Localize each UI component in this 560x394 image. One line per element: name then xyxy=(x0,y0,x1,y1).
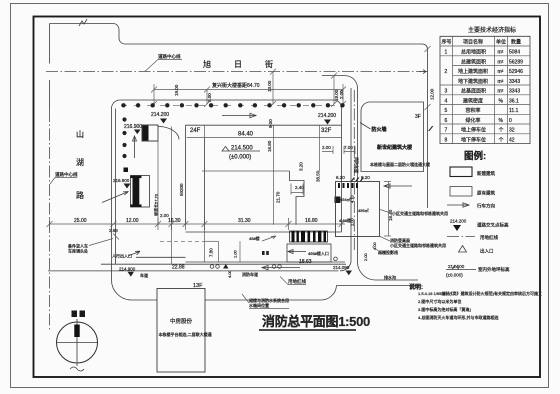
svg-text:m²: m² xyxy=(498,89,504,95)
podium building 3F outline xyxy=(361,102,424,172)
internal verticals below tower xyxy=(158,127,172,265)
east road centre line (dash-dot) xyxy=(353,90,355,252)
south street edge turning into east access road xyxy=(322,76,418,280)
legend entrance triangle xyxy=(459,246,467,253)
svg-text:0: 0 xyxy=(509,118,512,124)
svg-text:容积率: 容积率 xyxy=(466,107,481,114)
svg-text:道路中心线: 道路中心线 xyxy=(158,53,181,60)
svg-text:45#楼: 45#楼 xyxy=(249,235,260,241)
svg-text:52946: 52946 xyxy=(509,69,523,75)
svg-text:(±0.000): (±0.000) xyxy=(229,155,251,161)
svg-text:13.00: 13.00 xyxy=(267,80,272,92)
column dot column (west colonnade) xyxy=(122,117,126,121)
road break mark xyxy=(79,19,87,26)
door swing arc xyxy=(158,127,179,140)
svg-text:复兴街大楼垂距84.70: 复兴街大楼垂距84.70 xyxy=(212,82,260,89)
arrow into entrance xyxy=(288,250,306,254)
svg-text:7: 7 xyxy=(445,128,448,134)
svg-text:2.00: 2.00 xyxy=(363,252,368,261)
svg-text:38.50: 38.50 xyxy=(316,170,321,182)
svg-text:消防总平面图1:500: 消防总平面图1:500 xyxy=(262,314,370,329)
compass north label xyxy=(72,311,78,318)
svg-text:32F: 32F xyxy=(321,128,332,134)
svg-text:用地红线: 用地红线 xyxy=(288,278,306,285)
svg-text:7.00: 7.00 xyxy=(344,145,353,150)
step outline east wing xyxy=(290,171,305,225)
svg-text:用地红线: 用地红线 xyxy=(480,234,498,241)
lobby dashed line xyxy=(160,240,205,242)
svg-text:3343: 3343 xyxy=(509,89,520,95)
svg-text:214.200: 214.200 xyxy=(450,219,467,224)
svg-text:5084: 5084 xyxy=(509,50,520,56)
svg-text:4.00: 4.00 xyxy=(372,241,377,250)
svg-text:旭: 旭 xyxy=(203,59,211,69)
svg-text:3343: 3343 xyxy=(509,79,520,85)
road edge: north side of Xuri street with jog xyxy=(50,24,428,209)
svg-text:小区交通主道路和邻栋建筑共用: 小区交通主道路和邻栋建筑共用 xyxy=(390,242,446,248)
hydrant circles on lane xyxy=(210,265,214,269)
svg-text:16.80: 16.80 xyxy=(305,218,318,224)
svg-text:雨棚投影线: 雨棚投影线 xyxy=(378,249,398,255)
hatched crossing on lane xyxy=(351,178,365,182)
svg-text:25.00: 25.00 xyxy=(74,218,87,224)
hatch bars top of 4-6# xyxy=(338,183,358,188)
svg-text:个: 个 xyxy=(499,128,504,134)
label 道路中心线 (left) xyxy=(50,171,78,184)
svg-text:数量: 数量 xyxy=(511,39,521,46)
svg-text:说明:: 说明: xyxy=(409,283,423,291)
ramp outline box xyxy=(131,176,150,208)
svg-text:2.图中尺寸均以米为单位: 2.图中尺寸均以米为单位 xyxy=(418,298,461,304)
level symbol 214.500 (±0.000) xyxy=(222,146,260,161)
tower south wall line xyxy=(186,261,346,263)
svg-text:新建建筑: 新建建筑 xyxy=(477,170,495,177)
svg-text:新世纪建筑大楼: 新世纪建筑大楼 xyxy=(377,144,412,151)
svg-text:2.68: 2.68 xyxy=(109,228,118,233)
svg-text:2.00: 2.00 xyxy=(350,217,355,226)
svg-text:11.1: 11.1 xyxy=(509,108,519,114)
site top boundary with rounded corners xyxy=(112,100,342,232)
compass base squiggle xyxy=(70,367,84,371)
svg-text:%: % xyxy=(499,98,504,104)
svg-text:31.30: 31.30 xyxy=(238,218,251,224)
compass circle xyxy=(57,322,98,363)
compass needle black xyxy=(74,325,79,338)
svg-text:总基底面积: 总基底面积 xyxy=(461,88,486,95)
svg-text:4.10: 4.10 xyxy=(350,194,355,203)
small marks on lane xyxy=(262,251,265,255)
small black landing xyxy=(124,168,129,173)
fire lane north line xyxy=(101,263,346,265)
svg-text:排水沟: 排水沟 xyxy=(384,274,396,280)
svg-text:214.500: 214.500 xyxy=(231,146,253,152)
svg-text:消防车道: 消防车道 xyxy=(242,271,258,277)
fire lane south line curving up east xyxy=(48,270,339,272)
svg-text:m²: m² xyxy=(498,50,504,56)
svg-text:84.40: 84.40 xyxy=(238,132,254,138)
svg-text:山: 山 xyxy=(76,129,84,139)
svg-text:4.总图消防灭火车道均环形,并与市政道路相连: 4.总图消防灭火车道均环形,并与市政道路相连 xyxy=(418,314,498,320)
svg-text:绿化率: 绿化率 xyxy=(466,117,481,124)
parking barcode hatch block xyxy=(290,231,328,242)
svg-text:消防车道: 消防车道 xyxy=(354,157,360,173)
svg-text:室内外地坪标高: 室内外地坪标高 xyxy=(478,266,510,273)
svg-text:56289: 56289 xyxy=(509,59,523,65)
traffic direction arrow on street xyxy=(222,113,256,117)
svg-text:50200: 50200 xyxy=(179,183,184,196)
svg-text:456#楼入口: 456#楼入口 xyxy=(308,250,329,256)
svg-text:出入口: 出入口 xyxy=(480,248,494,255)
svg-text:湖: 湖 xyxy=(76,158,84,167)
column dot row (trees/columns along street) xyxy=(121,103,125,107)
west annexe edge xyxy=(115,109,117,265)
Zhongfang block outline xyxy=(157,289,205,373)
svg-text:12.00: 12.00 xyxy=(430,88,435,100)
centre-line arrow tick xyxy=(419,70,426,74)
lane direction arrow (west) xyxy=(262,265,300,269)
svg-text:214.900: 214.900 xyxy=(119,267,136,272)
svg-text:4: 4 xyxy=(445,98,448,104)
svg-text:1: 1 xyxy=(445,50,448,56)
legend red line dash-dot xyxy=(447,236,475,238)
entrance canopy block (north-west) xyxy=(142,125,158,141)
small annex black mark xyxy=(335,197,341,204)
svg-text:2.00: 2.00 xyxy=(339,90,344,99)
svg-text:214.090: 214.090 xyxy=(333,265,350,270)
svg-text:防火墙: 防火墙 xyxy=(372,126,387,133)
svg-text:12.00: 12.00 xyxy=(126,218,139,224)
fire lane upper edge xyxy=(136,256,186,258)
legend existing building box xyxy=(450,187,472,197)
svg-text:42: 42 xyxy=(509,137,515,143)
svg-text:32: 32 xyxy=(509,128,515,134)
svg-text:车库调头处: 车库调头处 xyxy=(68,248,88,254)
entrance hall outline (south-east) xyxy=(287,244,331,262)
svg-text:3F: 3F xyxy=(415,114,421,120)
svg-text:地上建筑面积: 地上建筑面积 xyxy=(458,68,488,75)
compass needle line xyxy=(76,319,78,366)
svg-text:3.20: 3.20 xyxy=(299,162,304,171)
svg-text:m²: m² xyxy=(498,69,504,75)
leader arrow to ramp xyxy=(102,192,129,203)
svg-text:1.00: 1.00 xyxy=(233,249,238,258)
svg-text:行车方向: 行车方向 xyxy=(477,203,495,210)
svg-text:19.00: 19.00 xyxy=(174,84,179,96)
road centre line: Shanhu road (vertical) xyxy=(49,24,51,111)
svg-text:单位: 单位 xyxy=(496,39,506,46)
svg-text:214.200: 214.200 xyxy=(151,112,169,118)
svg-text:1.5.4.18 1/65编制(《类》建筑设计防火规范)有关: 1.5.4.18 1/65编制(《类》建筑设计防火规范)有关规定由审核后方可施工 xyxy=(418,290,542,296)
svg-text:街: 街 xyxy=(265,59,273,69)
svg-text:m²: m² xyxy=(498,59,504,65)
west site boundary line + south rear lane xyxy=(112,109,419,301)
hatch tick marks on lane right xyxy=(428,126,434,131)
stair shaft black bar (west) xyxy=(131,176,142,179)
up arrow (ramp direction) xyxy=(133,136,137,158)
svg-text:9.00: 9.00 xyxy=(268,119,273,128)
svg-text:18.63: 18.63 xyxy=(299,259,312,265)
svg-text:总建筑面积: 总建筑面积 xyxy=(461,58,486,65)
svg-text:(±0.000): (±0.000) xyxy=(446,273,463,278)
svg-text:%: % xyxy=(499,118,504,124)
svg-text:22.88: 22.88 xyxy=(172,265,185,271)
svg-text:36.1: 36.1 xyxy=(509,98,519,104)
svg-text:214.200: 214.200 xyxy=(318,113,336,119)
svg-text:16.30: 16.30 xyxy=(168,218,181,224)
svg-text:24F: 24F xyxy=(190,128,201,134)
label 道路中心线 (top) xyxy=(145,53,182,71)
svg-text:水箱间位置: 水箱间位置 xyxy=(249,302,269,308)
legend new building box xyxy=(450,167,472,177)
svg-text:日: 日 xyxy=(234,60,242,69)
svg-text:5: 5 xyxy=(445,108,448,114)
svg-text:3: 3 xyxy=(445,89,448,95)
svg-text:图例:: 图例: xyxy=(464,150,486,162)
colonnade dashed line with column dots xyxy=(121,104,342,106)
svg-text:21.70: 21.70 xyxy=(276,191,281,203)
svg-text:道路交叉点标高: 道路交叉点标高 xyxy=(477,222,509,229)
svg-text:16.80: 16.80 xyxy=(267,140,272,152)
svg-text:地下建筑面积: 地下建筑面积 xyxy=(458,78,488,85)
svg-text:中房股份: 中房股份 xyxy=(170,317,193,325)
svg-text:2.00: 2.00 xyxy=(322,145,331,150)
svg-text:2: 2 xyxy=(445,69,448,75)
svg-text:原有建筑: 原有建筑 xyxy=(477,190,495,197)
svg-text:道路中心线: 道路中心线 xyxy=(55,171,78,178)
svg-text:建筑密度: 建筑密度 xyxy=(463,97,483,104)
main tower outline xyxy=(186,125,342,232)
svg-text:路: 路 xyxy=(76,190,84,200)
svg-text:3.00: 3.00 xyxy=(207,93,212,102)
svg-text:8: 8 xyxy=(445,137,448,143)
table grid xyxy=(440,36,530,143)
svg-text:m²: m² xyxy=(498,79,504,85)
svg-text:6: 6 xyxy=(445,118,448,124)
dim ticks top xyxy=(151,69,346,107)
road centre line: Xuri street (dash-dot) xyxy=(46,71,427,73)
svg-text:总用地面积: 总用地面积 xyxy=(461,49,486,56)
svg-text:7.80: 7.80 xyxy=(209,248,214,257)
svg-text:项目名称: 项目名称 xyxy=(463,39,483,46)
building 4-6# outline xyxy=(336,182,380,237)
svg-text:本栋楼乎台相连,二层联大楼通: 本栋楼乎台相连,二层联大楼通 xyxy=(159,331,212,337)
svg-text:序号: 序号 xyxy=(442,39,452,46)
svg-text:本栋楼与屋面二层防火墙连通大楼: 本栋楼与屋面二层防火墙连通大楼 xyxy=(370,161,430,167)
svg-text:216.900: 216.900 xyxy=(124,124,142,130)
svg-text:车道: 车道 xyxy=(140,272,148,278)
legend direction arrow xyxy=(447,203,469,207)
east road west edge xyxy=(340,88,351,271)
svg-text:主要技术经济指标: 主要技术经济指标 xyxy=(468,26,516,34)
main dimension chain y=224 xyxy=(50,218,346,230)
svg-text:3.图中标高为绝对标高「黄海」: 3.图中标高为绝对标高「黄海」 xyxy=(418,306,473,312)
svg-text:小区交通主道路和邻栋建筑共用: 小区交通主道路和邻栋建筑共用 xyxy=(392,210,448,216)
svg-text:6.20: 6.20 xyxy=(336,175,345,180)
svg-text:个: 个 xyxy=(499,137,504,143)
title underline xyxy=(259,329,356,331)
svg-text:地下停车位: 地下停车位 xyxy=(461,136,486,143)
svg-text:地上停车位: 地上停车位 xyxy=(461,127,486,134)
arrow into 4-6# xyxy=(384,184,412,188)
svg-text:456㎡: 456㎡ xyxy=(358,207,369,213)
svg-text:坡道长57.70: 坡道长57.70 xyxy=(153,193,159,216)
